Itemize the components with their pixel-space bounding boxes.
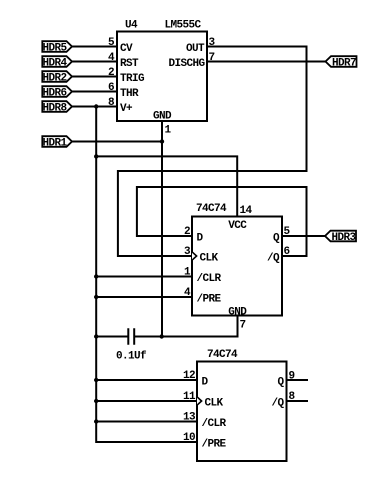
svg-text:D: D	[197, 233, 204, 245]
wire FF2 Q pin9 stub	[287, 379, 308, 381]
junction HDR8/V+	[94, 104, 98, 108]
svg-text:5: 5	[284, 226, 291, 238]
svg-text:HDR2: HDR2	[42, 73, 66, 85]
svg-text:THR: THR	[120, 88, 139, 100]
svg-text:4: 4	[108, 52, 115, 64]
wire V+ vertical rail	[96, 107, 197, 443]
svg-text:/PRE: /PRE	[197, 294, 222, 306]
svg-text:74C74: 74C74	[196, 203, 227, 215]
svg-text:7: 7	[209, 52, 215, 64]
wire FF2 /Q pin8 stub	[287, 400, 308, 402]
svg-text:4: 4	[184, 287, 191, 299]
svg-text:CV: CV	[120, 43, 133, 55]
wire V+ to FF2 CLK pin11	[96, 400, 197, 402]
wire HDR5 to pin 5	[72, 46, 117, 48]
wire HDR2 to pin 2	[72, 76, 117, 78]
svg-text:2: 2	[184, 226, 190, 238]
svg-text:/Q: /Q	[267, 253, 280, 265]
junction V+/CLK11	[94, 399, 98, 403]
clock chevron FF1 pin3	[192, 252, 197, 260]
op-amp U4 LM555C body	[117, 32, 207, 122]
svg-text:D: D	[202, 377, 209, 389]
wire 555 GND pin1 down	[161, 121, 163, 337]
junction V+//PRE4	[94, 295, 98, 299]
svg-text:OUT: OUT	[186, 43, 205, 55]
svg-text:2: 2	[108, 67, 114, 79]
svg-text:3: 3	[184, 246, 191, 258]
junction V+/cap	[94, 334, 98, 338]
clock chevron FF2 pin11	[197, 397, 202, 405]
svg-text:V+: V+	[120, 103, 133, 115]
svg-text:6: 6	[108, 82, 114, 94]
wire HDR1 to node GND	[72, 141, 162, 143]
svg-text:1: 1	[165, 125, 172, 137]
svg-text:8: 8	[108, 97, 115, 109]
wire DISCHG pin7 to HDR7	[207, 61, 326, 63]
wire HDR8 to pin 8 V+	[72, 106, 117, 108]
svg-text:U4: U4	[125, 20, 138, 32]
header HDR6	[42, 86, 72, 97]
svg-text:13: 13	[183, 412, 196, 424]
svg-text:14: 14	[240, 205, 253, 217]
svg-text:CLK: CLK	[205, 398, 224, 410]
svg-text:HDR7: HDR7	[332, 58, 356, 70]
svg-text:/Q: /Q	[271, 398, 284, 410]
svg-text:/CLR: /CLR	[197, 273, 222, 285]
svg-text:7: 7	[240, 320, 246, 332]
header HDR3	[325, 231, 356, 242]
junction V+//CLR1	[94, 274, 98, 278]
wire V+ to FF1 /CLR pin1	[96, 276, 192, 278]
svg-text:/CLR: /CLR	[202, 418, 227, 430]
svg-text:GND: GND	[153, 111, 172, 123]
wire VCC feed to FF1 pin14	[96, 156, 237, 216]
svg-text:9: 9	[289, 371, 295, 383]
svg-text:8: 8	[289, 391, 296, 403]
junction V+//CLR13	[94, 419, 98, 423]
svg-text:LM555C: LM555C	[165, 20, 202, 32]
header HDR5	[42, 41, 72, 52]
svg-text:GND: GND	[228, 307, 247, 319]
wire OUT net: 555 pin3 to FF1 CLK pin3	[118, 47, 307, 257]
wire GND net: cap to FF1 GND pin7	[96, 336, 127, 338]
header HDR8	[42, 101, 72, 112]
header HDR4	[42, 56, 72, 67]
svg-text:Q: Q	[277, 377, 284, 389]
svg-text:11: 11	[183, 391, 196, 403]
svg-text:74C74: 74C74	[207, 349, 238, 361]
svg-text:3: 3	[209, 37, 216, 49]
flip-flop U? 74C74 FF1 body	[192, 217, 282, 316]
flip-flop U? 74C74 FF2 body	[197, 362, 287, 462]
svg-text:VCC: VCC	[228, 220, 247, 232]
wire HDR6 to pin 6	[72, 91, 117, 93]
svg-text:0.1Uf: 0.1Uf	[116, 351, 147, 363]
junction GND/cap	[160, 334, 164, 338]
svg-text:12: 12	[183, 370, 195, 382]
svg-text:HDR1: HDR1	[42, 138, 67, 150]
svg-text:HDR3: HDR3	[331, 232, 356, 244]
wire V+ to FF2 /CLR pin13	[96, 421, 197, 423]
svg-text:Q: Q	[273, 233, 280, 245]
wire V+ to FF1 /PRE pin4	[96, 296, 192, 298]
svg-text:HDR5: HDR5	[42, 43, 67, 55]
svg-text:HDR4: HDR4	[42, 58, 67, 70]
svg-text:5: 5	[108, 37, 115, 49]
svg-text:HDR8: HDR8	[42, 103, 67, 115]
wire /Q-to-D feedback net	[137, 187, 307, 256]
wire cap right to FF1 pin7	[135, 316, 237, 337]
wire FF1 Q pin5 to HDR3	[282, 235, 325, 237]
svg-text:TRIG: TRIG	[120, 73, 145, 85]
wire HDR4 to pin 4	[72, 61, 117, 63]
svg-text:RST: RST	[120, 58, 139, 70]
svg-text:6: 6	[284, 246, 290, 258]
wire V+ to FF2 D pin12	[96, 379, 197, 381]
junction GND pin1/HDR1	[160, 139, 164, 143]
svg-text:DISCHG: DISCHG	[168, 58, 205, 70]
capacitor C1 plates	[128, 329, 134, 343]
svg-text:HDR6: HDR6	[42, 88, 66, 100]
svg-text:1: 1	[184, 267, 191, 279]
svg-text:/PRE: /PRE	[202, 439, 227, 451]
header HDR1	[42, 136, 72, 147]
header HDR7	[326, 56, 357, 67]
junction V+/D12	[94, 378, 98, 382]
svg-text:CLK: CLK	[200, 253, 219, 265]
junction V+/VCC feed	[94, 154, 98, 158]
header HDR2	[42, 71, 72, 82]
svg-text:10: 10	[183, 432, 195, 444]
